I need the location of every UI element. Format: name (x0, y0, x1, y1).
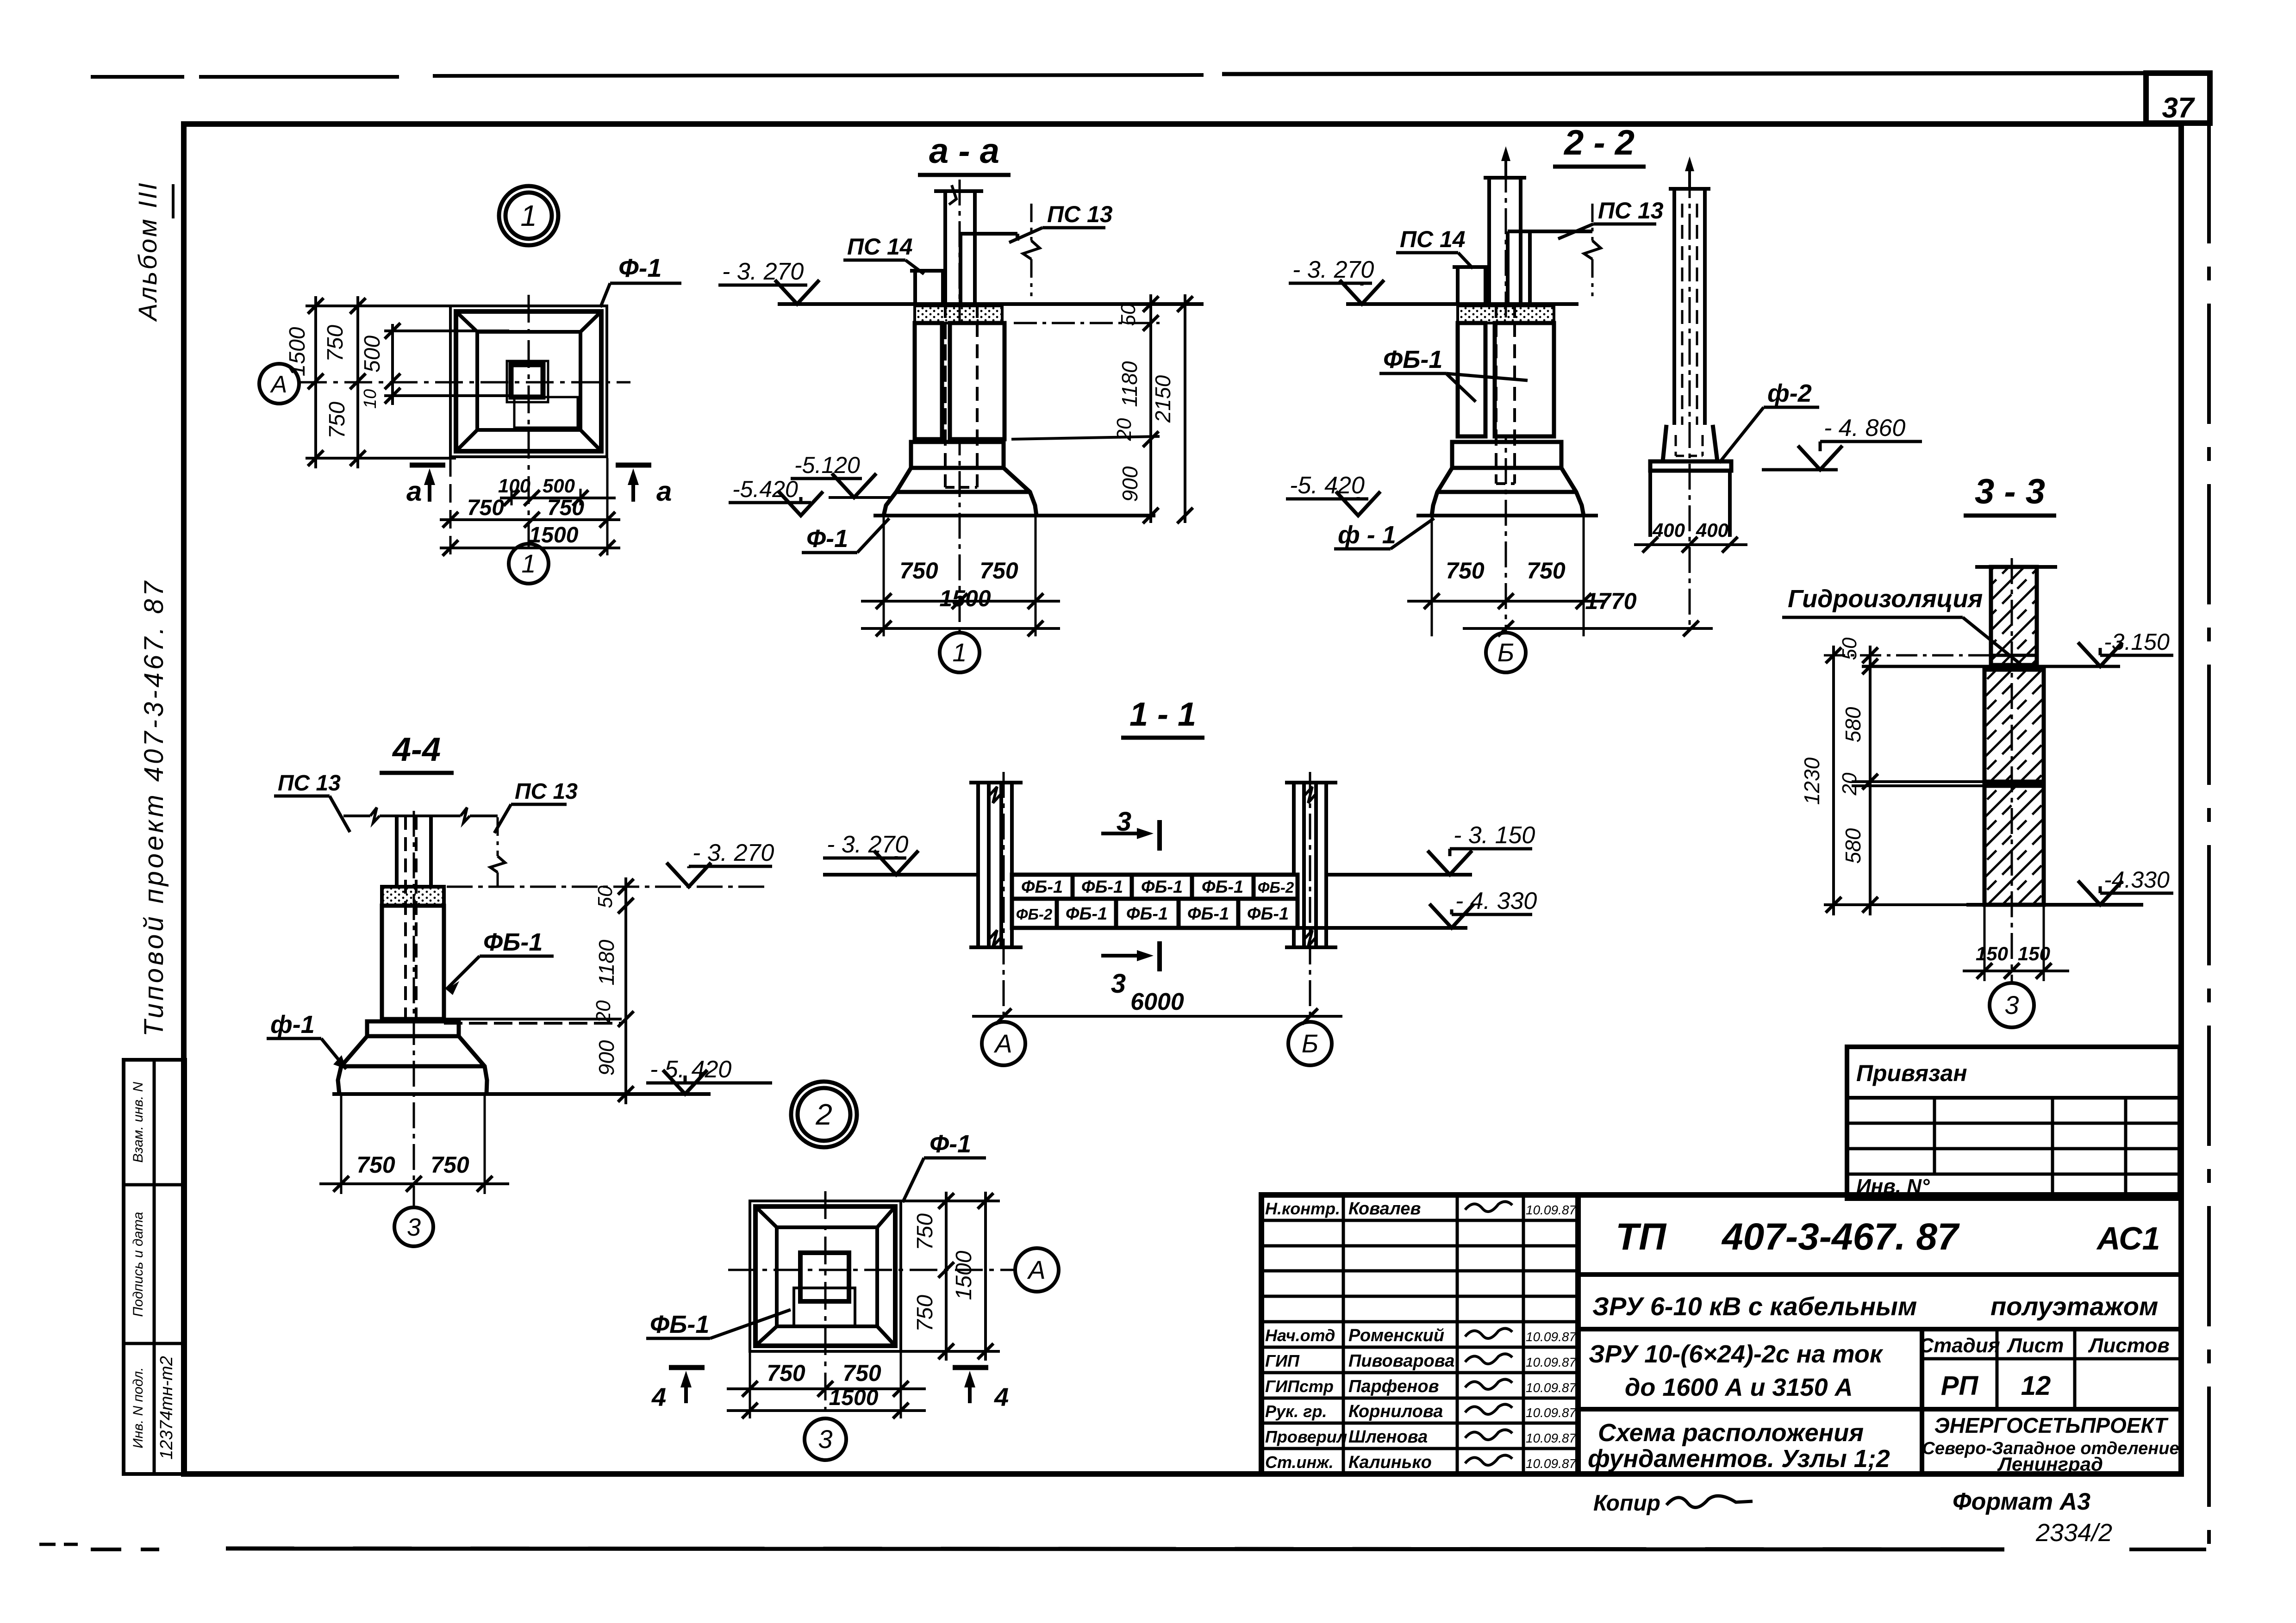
column stub square (plan 2) (800, 1253, 849, 1301)
svg-text:ФБ-1: ФБ-1 (1066, 904, 1107, 924)
svg-text:10.09.87: 10.09.87 (1526, 1456, 1577, 1471)
svg-text:12: 12 (2021, 1371, 2051, 1401)
extension lines left (plan 1) (306, 305, 456, 307)
svg-text:Гидроизоляция: Гидроизоляция (1788, 585, 1983, 613)
column Ф-2 (2-2) (1672, 189, 1676, 425)
svg-text:500: 500 (360, 336, 385, 373)
svg-text:А: А (270, 371, 287, 398)
svg-text:Взам. инв. N: Взам. инв. N (131, 1082, 146, 1163)
svg-text:Копир: Копир (1593, 1491, 1660, 1516)
level line -3.150 (3-3) (1862, 665, 2120, 668)
axis circle A (plan 1) (259, 364, 299, 404)
svg-text:10.09.87: 10.09.87 (1526, 1355, 1577, 1369)
section mark 4 (left, plan 2) (669, 1365, 705, 1370)
axis circle A (plan 2) (1015, 1248, 1059, 1292)
table Привязан: outer box (1847, 1047, 2180, 1199)
svg-text:100: 100 (498, 475, 530, 497)
lower block rectangle (plan 1) (514, 397, 578, 428)
svg-text:ФБ-1: ФБ-1 (650, 1311, 709, 1338)
svg-text:750: 750 (467, 496, 504, 520)
base bottom / level line -5.420 (a-a) (873, 514, 1155, 517)
svg-text:3: 3 (407, 1213, 421, 1241)
dim 6000 (1-1) (972, 1015, 1342, 1018)
slab ПС13 wall (a-a) (959, 234, 962, 304)
block joints top row (1-1) (1071, 875, 1075, 899)
outer top dashed border line (91, 75, 184, 79)
block ФБ-1 right (a-a) (950, 323, 1004, 439)
svg-text:Б: Б (1497, 638, 1514, 667)
svg-text:20: 20 (1838, 772, 1861, 796)
base plate of Ф-2 (1650, 461, 1731, 471)
wall centerline (3-3) (2011, 558, 2013, 982)
break squiggles left column (1-1) (989, 787, 1001, 803)
slab ПС14 (2-2) (1456, 267, 1460, 304)
dim 1500 right (plan 2) (984, 1192, 987, 1361)
bottom dim 1500 (a-a) (861, 627, 1060, 630)
column hidden lines (2-2) (1495, 304, 1497, 484)
svg-text:Ленинград: Ленинград (1997, 1453, 2103, 1475)
svg-text:3: 3 (2004, 990, 2019, 1020)
svg-text:ПС 13: ПС 13 (515, 779, 578, 804)
section cut circle 1 below plan (509, 544, 549, 584)
foundation Ф-1 plan: bevel diagonals (456, 311, 477, 332)
svg-text:- 5. 420: - 5. 420 (650, 1056, 731, 1083)
svg-text:407-3-467. 87: 407-3-467. 87 (1721, 1216, 1960, 1258)
axis circle 3 below (3-3) (1990, 983, 2034, 1027)
section mark 4 (right, plan 2) (953, 1365, 988, 1370)
dim chain 50/1180/20/900 (4-4) (624, 877, 627, 1104)
svg-text:Схема расположения: Схема расположения (1598, 1419, 1864, 1447)
block column ФБ-1 (4-4) (382, 906, 444, 1019)
svg-text:Ковалев: Ковалев (1348, 1199, 1421, 1219)
dim extension lines right (a-a) (1014, 322, 1160, 324)
svg-text:500: 500 (543, 475, 575, 497)
title block: organization cell (1922, 1407, 2181, 1412)
svg-text:Н.контр.: Н.контр. (1265, 1199, 1340, 1218)
svg-text:ГИПстр: ГИПстр (1265, 1377, 1334, 1396)
svg-text:750: 750 (430, 1152, 469, 1178)
node marker double circle 2 (791, 1082, 857, 1147)
svg-text:ФБ-1: ФБ-1 (1021, 877, 1063, 897)
svg-text:580: 580 (1841, 828, 1865, 864)
svg-text:750: 750 (323, 325, 348, 362)
svg-text:12374тн-т2: 12374тн-т2 (157, 1356, 176, 1460)
bottom extension lines (2-2) (1431, 516, 1433, 636)
svg-text:900: 900 (1118, 466, 1142, 502)
svg-text:фундаментов. Узлы 1;2: фундаментов. Узлы 1;2 (1588, 1445, 1890, 1473)
svg-text:А: А (993, 1029, 1012, 1058)
svg-text:Пивоварова: Пивоварова (1348, 1351, 1454, 1371)
outer bottom dashed border line (91, 1548, 121, 1551)
step band of base (a-a) (911, 442, 1004, 468)
svg-text:Ф-1: Ф-1 (618, 253, 662, 282)
svg-text:Формат А3: Формат А3 (1953, 1488, 2090, 1515)
svg-text:750: 750 (547, 496, 584, 520)
extension verticals bottom (plan 1) (449, 458, 452, 555)
svg-text:1500: 1500 (952, 1250, 976, 1300)
svg-text:полуэтажом: полуэтажом (1990, 1292, 2158, 1321)
seam reference lines (4-4) (444, 1018, 622, 1020)
svg-text:150: 150 (2018, 943, 2050, 964)
svg-text:750: 750 (980, 558, 1018, 584)
svg-text:Привязан: Привязан (1856, 1060, 1967, 1086)
axis line Б vertical (1-1) (1309, 772, 1311, 1022)
section mark a (left) (410, 463, 445, 468)
foot of Ф-2 (1663, 425, 1717, 461)
bottom dim 1500 (plan 1) (440, 547, 620, 549)
svg-text:РП: РП (1941, 1371, 1979, 1401)
foundation plan 2: pyramid top square (777, 1227, 877, 1326)
screed stipple band (4-4) (382, 887, 444, 906)
title block: object name row (1578, 1327, 2181, 1331)
ground line left segment (1-1) (823, 873, 978, 877)
svg-text:-5. 420: -5. 420 (1290, 472, 1365, 499)
screed stipple band (a-a) (915, 306, 1002, 323)
svg-text:Инв. N подл.: Инв. N подл. (131, 1367, 146, 1448)
title block: vertical divider (1920, 1329, 1924, 1474)
svg-text:Ф-1: Ф-1 (806, 525, 848, 553)
svg-text:ФБ-1: ФБ-1 (1081, 877, 1123, 897)
svg-text:750: 750 (325, 402, 349, 439)
column hidden through right block (a-a) (944, 323, 947, 439)
svg-text:400: 400 (1696, 519, 1728, 541)
svg-text:Нач.отд: Нач.отд (1265, 1326, 1335, 1345)
base bottom / level -5.420 line (4-4) (332, 1092, 711, 1096)
column centerline (2-2) (1505, 167, 1507, 633)
svg-text:Типовой проект 407-3-467.: Типовой проект 407-3-467. 87 (139, 578, 169, 1037)
svg-text:1500: 1500 (829, 1386, 879, 1410)
axis circle 1 below (a-a) (940, 633, 980, 672)
svg-text:580: 580 (1841, 707, 1865, 742)
signature table column lines (1342, 1195, 1345, 1474)
section mark a (right) (616, 463, 651, 468)
svg-text:ПС 14: ПС 14 (1400, 226, 1466, 252)
svg-text:4: 4 (994, 1382, 1009, 1412)
svg-text:ФБ-2: ФБ-2 (1016, 906, 1053, 923)
svg-text:ЗРУ 10-(6×24)-2с на ток: ЗРУ 10-(6×24)-2с на ток (1589, 1340, 1884, 1368)
block ФБ-1 left (2-2) (1458, 323, 1485, 436)
column centerline (a-a) (959, 180, 961, 633)
dim 1770 (2-2) (1463, 627, 1713, 630)
lower wall block (3-3) (1984, 786, 2044, 905)
bottom extension lines (plan 2) (749, 1351, 751, 1418)
svg-text:Стадия: Стадия (1919, 1334, 2000, 1357)
title block: stage/sheet header cells (1922, 1357, 2181, 1361)
column stub square (thick, plan 1) (511, 365, 543, 397)
svg-text:Подпись и дата: Подпись и дата (131, 1212, 146, 1317)
svg-text:1770: 1770 (1585, 588, 1636, 614)
bottom extension lines (3-3) (1984, 905, 1986, 981)
step band of base (2-2) (1452, 442, 1561, 468)
svg-text:- 3. 270: - 3. 270 (1292, 256, 1374, 283)
foundation plan 2: inner thick square (755, 1206, 895, 1346)
break squiggles right column (1-1) (1304, 787, 1316, 803)
svg-text:a: a (656, 476, 672, 507)
signature table right edge (1575, 1195, 1581, 1474)
svg-text:10.09.87: 10.09.87 (1526, 1405, 1577, 1420)
svg-text:2334/2: 2334/2 (2035, 1519, 2112, 1547)
svg-text:Роменский: Роменский (1348, 1326, 1444, 1345)
dim 2150 overall (a-a) (1184, 294, 1186, 523)
column Ф-2 inner dashes (1681, 204, 1684, 425)
column above ground (4-4) (395, 816, 399, 887)
ground dash line -3.270 (4-4) (447, 886, 768, 888)
break line top (4-4) (343, 815, 370, 817)
svg-text:2150: 2150 (1151, 375, 1175, 423)
block joints bottom row (1-1) (1055, 899, 1059, 928)
joint seam lines (3-3) (1852, 780, 2044, 783)
cut line with break (2-2) (1591, 204, 1594, 241)
svg-text:1180: 1180 (594, 939, 618, 985)
svg-text:ф-2: ф-2 (1767, 379, 1812, 407)
svg-text:1 - 1: 1 - 1 (1129, 696, 1196, 733)
svg-text:750: 750 (913, 1295, 937, 1332)
centerline vertical (plan 1) (528, 295, 530, 549)
wall above waterproofing (3-3) (1991, 567, 2037, 665)
column above ground (a-a) (943, 191, 947, 304)
svg-text:- 4. 860: - 4. 860 (1824, 415, 1905, 442)
foundation Ф-1 plan: pyramid top square (477, 332, 580, 430)
column hidden through right block (2-2) (1495, 323, 1497, 436)
left column axis A (1-1) (976, 783, 980, 947)
svg-text:1500: 1500 (285, 327, 310, 376)
dim line 750/750 vertical (plan 1) (356, 296, 359, 468)
centerline horizontal (plan 2) (728, 1269, 1015, 1271)
axis circle Б (1-1) (1288, 1022, 1332, 1065)
bottom-left stray dashes (39, 1543, 56, 1546)
svg-text:750: 750 (899, 558, 938, 584)
table Привязан: column lines (1933, 1098, 1936, 1174)
bottom dim 750/750 (plan 2) (727, 1387, 926, 1390)
screed stipple band (2-2) (1458, 306, 1554, 323)
svg-text:3: 3 (1111, 969, 1126, 999)
cut line right with break (4-4) (497, 817, 499, 856)
block wall middle seam (1-1) (1012, 897, 1298, 901)
svg-text:ФБ-2: ФБ-2 (1258, 879, 1294, 896)
foundation Ф-1 plan: inner thick square (456, 311, 601, 451)
svg-text:ПС 13: ПС 13 (278, 771, 341, 796)
ground line right segment (1-1) (1326, 873, 1472, 877)
svg-text:- 3. 270: - 3. 270 (827, 831, 908, 858)
svg-text:а - а: а - а (929, 131, 999, 171)
svg-text:Парфенов: Парфенов (1348, 1377, 1439, 1396)
svg-text:750: 750 (913, 1213, 937, 1250)
svg-text:1180: 1180 (1117, 361, 1142, 407)
svg-text:37: 37 (2162, 92, 2195, 124)
axis circle 3 below (plan 2) (805, 1418, 846, 1460)
bottom dim 1500 (plan 2) (727, 1409, 926, 1412)
block ФБ-1 left (a-a) (915, 323, 942, 439)
svg-text:a: a (406, 476, 422, 507)
middle wall block (3-3) (1984, 670, 2044, 782)
dim chain 50/1180/20/900 (a-a) (1149, 294, 1152, 523)
bottom extension lines (a-a) (883, 516, 885, 636)
svg-text:10: 10 (361, 389, 380, 409)
svg-text:ЗРУ 6-10 кВ с кабельным: ЗРУ 6-10 кВ с кабельным (1592, 1292, 1917, 1321)
svg-text:Б: Б (1302, 1029, 1318, 1058)
svg-text:10.09.87: 10.09.87 (1526, 1380, 1577, 1395)
dim 750/750 right (plan 2) (945, 1192, 948, 1361)
svg-text:-5.420: -5.420 (732, 476, 798, 502)
column Ф-2 top arrow (1688, 163, 1691, 189)
svg-text:до 1600 А и 3150 А: до 1600 А и 3150 А (1625, 1374, 1853, 1401)
bottom dim 100/500 (plan 1) (500, 497, 616, 499)
svg-text:750: 750 (842, 1360, 881, 1386)
bottom extension lines (4-4) (340, 1094, 343, 1194)
dim 1230 overall (3-3) (1832, 646, 1835, 915)
main column (2-2) (1487, 178, 1491, 304)
svg-text:150: 150 (1976, 943, 2008, 964)
foundation plan 2: outer square (750, 1201, 901, 1351)
svg-text:2 - 2: 2 - 2 (1563, 123, 1635, 162)
inner drawing frame (184, 124, 2181, 1474)
table Привязан: header bottom line (1847, 1096, 2180, 1100)
waterproofing line (3-3) (1991, 654, 2037, 657)
svg-text:- 3. 270: - 3. 270 (722, 258, 804, 285)
extension lines right (plan 2) (901, 1200, 1000, 1202)
block wall outline (1-1) (1012, 875, 1298, 928)
svg-text:А: А (1027, 1255, 1045, 1284)
svg-text:1500: 1500 (939, 585, 991, 611)
svg-text:ФБ-1: ФБ-1 (483, 928, 543, 956)
svg-text:20: 20 (592, 1000, 615, 1023)
svg-text:750: 750 (767, 1360, 805, 1386)
svg-text:Рук. гр.: Рук. гр. (1265, 1402, 1327, 1421)
svg-text:ф - 1: ф - 1 (1338, 521, 1396, 549)
svg-text:1: 1 (520, 199, 537, 232)
svg-text:- 3. 150: - 3. 150 (1454, 822, 1535, 849)
extension lines left (3-3) (1824, 654, 1990, 657)
svg-text:750: 750 (356, 1152, 395, 1178)
title block outer box (1261, 1195, 2181, 1474)
step band of base (4-4) (367, 1021, 459, 1036)
svg-text:Шленова: Шленова (1348, 1427, 1428, 1447)
svg-text:Проверил: Проверил (1265, 1427, 1347, 1446)
svg-text:Ф-1: Ф-1 (930, 1130, 971, 1158)
centerline horizontal (plan 1) (299, 381, 630, 384)
svg-text:Калинько: Калинько (1348, 1453, 1432, 1472)
svg-text:1: 1 (952, 638, 967, 667)
base bottom line (2-2) (1416, 514, 1598, 517)
title block: ТП 407-3-467.87 АС1 row (1578, 1272, 2181, 1277)
svg-text:ТП: ТП (1616, 1216, 1667, 1258)
base trapezoid Ф-1 (4-4) (338, 1036, 487, 1094)
svg-text:750: 750 (1527, 558, 1566, 584)
node marker double circle 1 (499, 186, 558, 245)
svg-text:750: 750 (1446, 558, 1485, 584)
svg-text:400: 400 (1652, 519, 1685, 541)
svg-text:ФБ-1: ФБ-1 (1126, 904, 1168, 924)
svg-text:ГИП: ГИП (1265, 1351, 1300, 1370)
base trapezoid Ф-1 (a-a) (884, 468, 1036, 516)
column hidden lines below ground (a-a) (944, 304, 947, 487)
page number box 37 (2146, 73, 2210, 123)
lower block step (plan 2) (794, 1288, 855, 1326)
table Привязан: row lines (1847, 1122, 2180, 1125)
svg-text:ФБ-1: ФБ-1 (1187, 904, 1229, 924)
svg-text:-5.120: -5.120 (794, 452, 860, 478)
svg-text:Ст.инж.: Ст.инж. (1265, 1453, 1334, 1472)
column centerline (4-4) (413, 811, 415, 1209)
svg-text:Лист: Лист (2007, 1334, 2064, 1357)
block ФБ-1 right (2-2) (1495, 323, 1554, 436)
dim 400/400 (2-2) (1634, 543, 1747, 546)
bottom dim 150/150 (3-3) (1963, 970, 2069, 972)
left attribute strip table (124, 1060, 185, 1474)
dim chain 50/580/20/580 (3-3) (1869, 646, 1872, 915)
svg-text:ФБ-1: ФБ-1 (1383, 346, 1442, 373)
bottom line right segment -4.330 (1-1) (1298, 926, 1467, 930)
svg-text:ПС 13: ПС 13 (1598, 198, 1664, 224)
svg-text:900: 900 (594, 1040, 618, 1076)
bottom dim 750/750 (plan 1) (440, 518, 620, 521)
svg-text:20: 20 (1113, 418, 1136, 441)
axis circle Б below (2-2) (1486, 633, 1526, 672)
svg-text:ФБ-1: ФБ-1 (1247, 904, 1289, 924)
right column axis Б (1-1) (1292, 783, 1296, 947)
svg-text:Альбом III: Альбом III (133, 181, 162, 322)
ground line -3.270 (2-2) (1346, 302, 1578, 306)
ground line -3.270 (a-a) (778, 302, 1204, 306)
dim line 500/10 vertical (plan 1) (391, 324, 394, 405)
wall below plate (2-2) (1648, 471, 1652, 537)
svg-text:3 - 3: 3 - 3 (1975, 472, 2045, 511)
bottom dim 750/750 (2-2) (1407, 600, 1606, 603)
svg-text:ф-1: ф-1 (270, 1011, 315, 1038)
axis circle 3 below (4-4) (394, 1207, 433, 1246)
svg-text:АС1: АС1 (2096, 1220, 2160, 1256)
svg-text:50: 50 (1117, 303, 1140, 326)
foundation plan 2: bevel diagonals (755, 1206, 777, 1227)
svg-text:ЭНЕРГОСЕТЬПРОЕКТ: ЭНЕРГОСЕТЬПРОЕКТ (1934, 1413, 2169, 1437)
column top arrow (2-2) (1504, 153, 1507, 178)
svg-text:3: 3 (818, 1424, 832, 1454)
signature table row lines (1261, 1219, 1578, 1222)
centerline vertical (plan 2) (824, 1191, 827, 1417)
column Ф-2 centerline (1689, 172, 1691, 625)
dim line 1500 vertical (plan 1) (314, 296, 317, 468)
svg-text:ФБ-1: ФБ-1 (1202, 877, 1243, 897)
axis circle A (1-1) (982, 1022, 1025, 1065)
slab ПС13 wall (2-2) (1528, 231, 1532, 304)
svg-text:Корнилова: Корнилова (1348, 1402, 1443, 1421)
svg-text:50: 50 (594, 885, 617, 908)
svg-text:10.09.87: 10.09.87 (1526, 1431, 1577, 1445)
bottom dim 750/750 (a-a) (861, 600, 1060, 603)
svg-text:- 3. 270: - 3. 270 (693, 839, 774, 866)
svg-text:10.09.87: 10.09.87 (1526, 1330, 1577, 1344)
svg-text:ПС 13: ПС 13 (1047, 201, 1113, 227)
svg-text:1230: 1230 (1800, 757, 1824, 805)
foundation Ф-1 plan: outer square (450, 306, 607, 457)
svg-text:ФБ-1: ФБ-1 (1141, 877, 1183, 897)
svg-text:6000: 6000 (1130, 989, 1184, 1015)
outer right dash-dot border line (2207, 123, 2211, 1549)
svg-text:2: 2 (815, 1098, 832, 1131)
svg-text:4: 4 (651, 1382, 666, 1412)
level line -4.330 (3-3) (1966, 903, 2143, 907)
bottom dim 750/750 (4-4) (319, 1182, 509, 1185)
cut line with break (a-a) (1030, 204, 1033, 241)
block ФБ outline (thin, plan 1) (507, 361, 548, 402)
svg-text:4-4: 4-4 (392, 731, 441, 768)
svg-text:10.09.87: 10.09.87 (1526, 1203, 1577, 1217)
svg-text:ПС 14: ПС 14 (847, 234, 913, 260)
slab ПС14 (a-a) (913, 271, 917, 304)
svg-text:1: 1 (521, 549, 536, 578)
svg-text:Листов: Листов (2088, 1334, 2170, 1357)
base trapezoid Ф-1 (2-2) (1432, 468, 1584, 516)
